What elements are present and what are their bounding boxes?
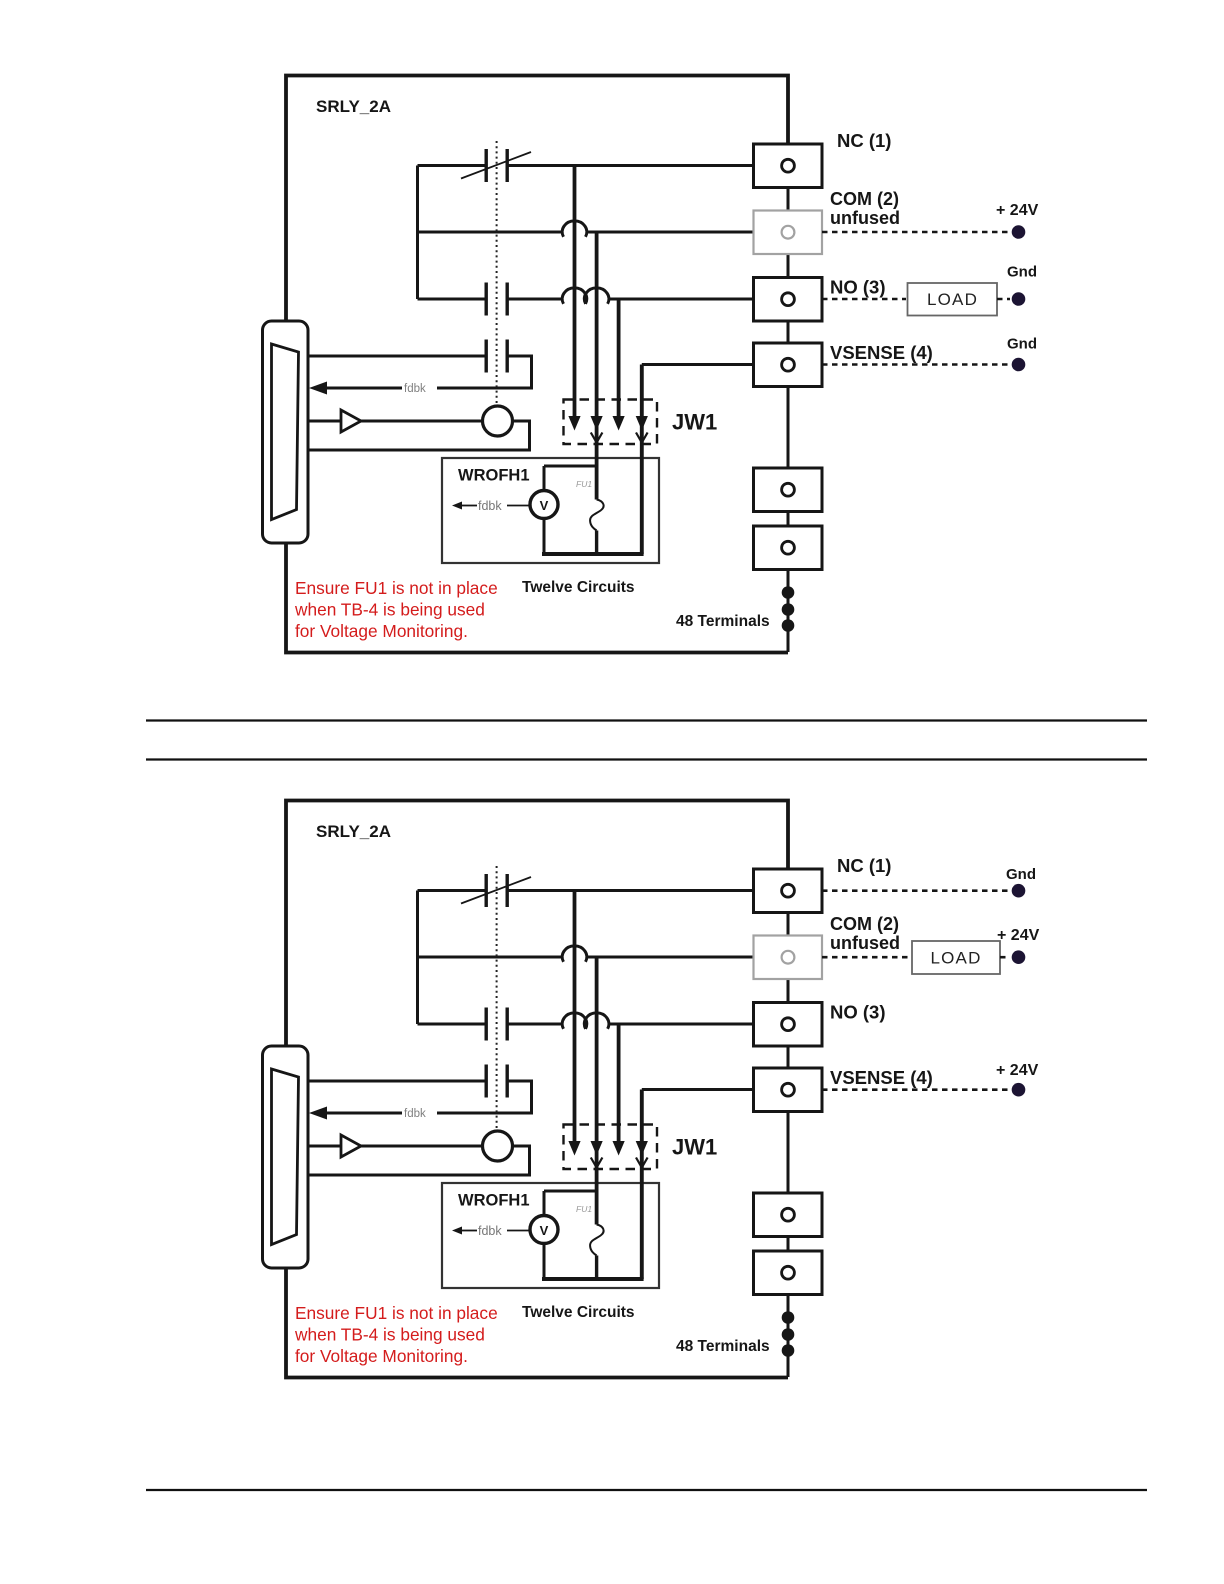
svg-text:+ 24V: + 24V: [997, 927, 1040, 944]
svg-text:Gnd: Gnd: [1006, 866, 1036, 883]
svg-text:+ 24V: + 24V: [996, 202, 1039, 219]
svg-text:LOAD: LOAD: [930, 949, 981, 968]
svg-text:+ 24V: + 24V: [996, 1062, 1039, 1079]
svg-text:LOAD: LOAD: [927, 290, 978, 309]
svg-text:Gnd: Gnd: [1007, 336, 1037, 353]
svg-text:Gnd: Gnd: [1007, 264, 1037, 281]
